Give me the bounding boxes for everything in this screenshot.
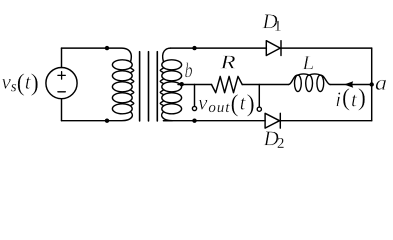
vout left terminal (192, 106, 196, 110)
label i(t) (336, 88, 365, 111)
node b dot (180, 82, 184, 86)
diode D1 (266, 41, 281, 56)
vout right terminal (257, 107, 261, 111)
junction dot secondary top (192, 46, 196, 50)
transformer primary winding loops (112, 60, 132, 70)
label D1 (262, 14, 280, 30)
label a (376, 80, 386, 90)
wire source vertical top (61, 48, 63, 67)
secondary winding curls (160, 68, 163, 105)
minus sign (58, 91, 65, 93)
label vout(t) (198, 94, 253, 117)
voltage source vs circle (46, 68, 77, 99)
primary top lead (107, 48, 131, 62)
label vs(t) (2, 73, 38, 96)
wire D1 to top-right corner (281, 47, 372, 49)
right rail wire (371, 48, 373, 121)
diode D2 (265, 113, 280, 128)
primary bottom lead (107, 112, 132, 121)
wire secondary top to diode D1 (171, 47, 267, 49)
transformer secondary winding loops (162, 60, 182, 70)
junction dot secondary bottom (192, 119, 196, 123)
wire D2 to bottom-right corner (281, 120, 372, 122)
current arrow i(t) (344, 81, 353, 87)
label R (220, 56, 235, 69)
junction dot primary bottom (105, 119, 109, 123)
secondary top lead (163, 48, 171, 62)
wire inductor to node a (330, 84, 372, 86)
plus sign (58, 72, 65, 79)
transformer core line 1 (139, 52, 141, 121)
label D2 (263, 132, 283, 148)
label b (185, 63, 192, 78)
vout right stub (258, 85, 260, 107)
transformer core line 3 (156, 52, 158, 121)
junction dot primary top (105, 46, 109, 50)
wire secondary bottom to diode D2 (164, 120, 266, 122)
node a dot (370, 82, 374, 86)
primary winding curls (131, 68, 134, 105)
label L (302, 56, 313, 69)
wire top-left from source to primary (62, 47, 108, 49)
wire center tap b to resistor (178, 84, 212, 86)
wire resistor to inductor (242, 84, 289, 86)
inductor L loops (295, 75, 302, 91)
transformer core line 2 (148, 52, 150, 121)
resistor R (212, 76, 243, 92)
wire bottom-left from source to primary (62, 120, 108, 122)
vout left stub (194, 85, 196, 107)
wire source vertical bottom (61, 99, 63, 121)
inductor L top arcs (289, 74, 330, 85)
secondary bottom lead (162, 112, 173, 121)
